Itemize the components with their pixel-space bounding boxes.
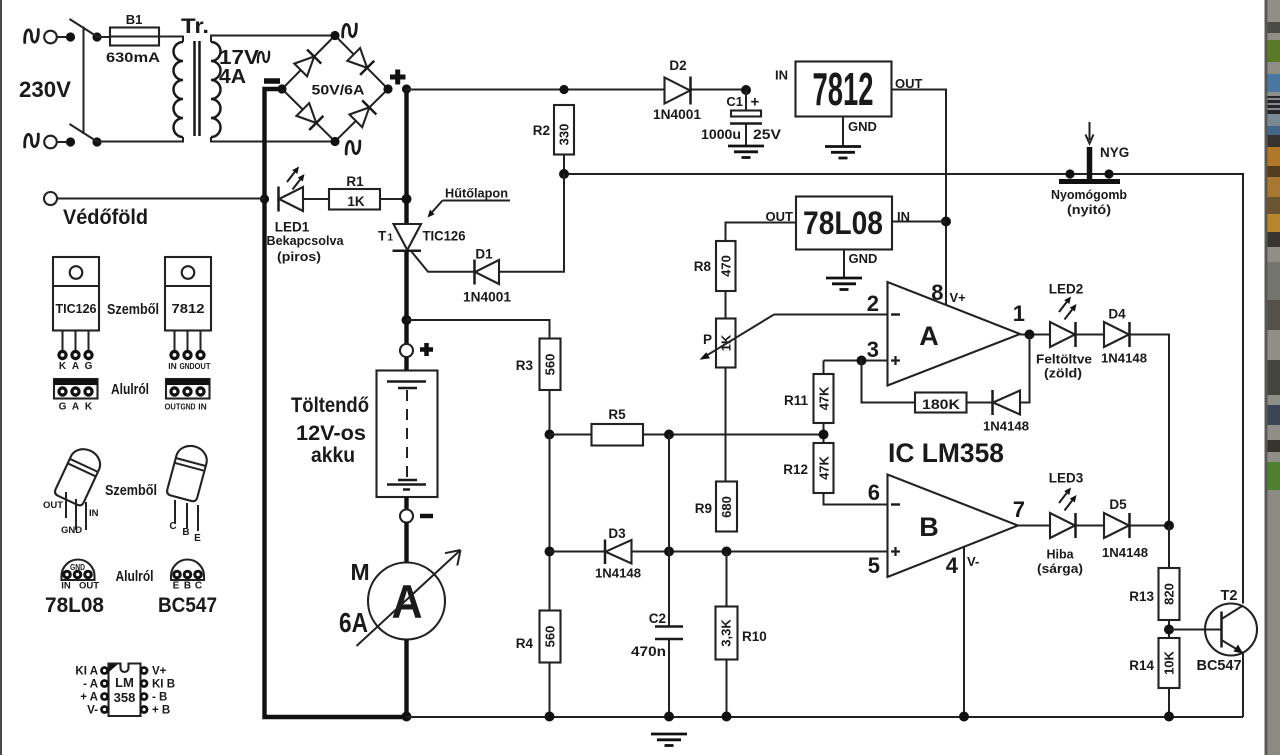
svg-text:B: B: [919, 512, 939, 542]
switch S1a blade: [70, 19, 98, 37]
svg-text:GND: GND: [849, 251, 878, 266]
svg-text:K: K: [59, 361, 67, 372]
svg-text:3: 3: [867, 337, 879, 362]
AC terminal top tilde: [25, 30, 39, 43]
resistor R14: [1159, 638, 1180, 688]
regulator U1 7812: [796, 62, 892, 117]
transformer core: [193, 41, 196, 136]
wire pin5 line: [550, 551, 888, 553]
resistor R5: [592, 424, 644, 446]
bridge diode top-right: [347, 47, 375, 75]
wire R11 top: [823, 361, 825, 375]
svg-text:R3: R3: [516, 358, 534, 373]
tilde top: [343, 24, 357, 37]
svg-text:50V/6A: 50V/6A: [312, 83, 365, 98]
earth terminal circle: [44, 192, 57, 205]
svg-text:1N4001: 1N4001: [463, 290, 511, 305]
package 78L08 front view TO-92: [54, 444, 105, 506]
wire secondary bottom: [211, 137, 335, 142]
DIP pins left: [100, 666, 109, 714]
svg-text:T: T: [378, 229, 387, 244]
svg-text:A: A: [72, 402, 79, 413]
svg-text:B1: B1: [126, 12, 143, 27]
svg-text:B: B: [184, 581, 191, 592]
svg-text:230V: 230V: [19, 77, 71, 102]
potentiometer P 1K: [716, 319, 736, 368]
diode D1: [473, 260, 476, 285]
svg-text:330: 330: [557, 124, 572, 146]
wire secondary top: [211, 36, 335, 43]
resistor R2: [554, 105, 574, 155]
svg-text:Alulról: Alulról: [111, 381, 149, 398]
svg-text:R14: R14: [1129, 658, 1154, 673]
svg-text:Hűtőlapon: Hűtőlapon: [445, 187, 508, 201]
svg-text:V+: V+: [950, 290, 967, 305]
wire 78L08 out to R8: [726, 223, 797, 242]
thyristor T1 TIC126: [394, 224, 422, 250]
svg-text:GND: GND: [61, 525, 82, 536]
svg-text:- B: - B: [152, 692, 167, 704]
diode feedback 1N4148: [991, 390, 994, 415]
wire: [159, 37, 183, 43]
wire: [1130, 525, 1170, 527]
svg-text:560: 560: [543, 354, 558, 376]
wire R4 bottom: [549, 663, 551, 718]
bridge diode bottom-left: [296, 102, 324, 130]
svg-text:IN: IN: [168, 361, 177, 371]
wire: [97, 137, 183, 142]
resistor R10: [716, 607, 738, 660]
node plus top: [402, 84, 411, 93]
wire 12V net y174: [564, 174, 1243, 604]
node R11 R12: [819, 430, 829, 440]
node bus C2: [664, 712, 674, 722]
svg-text:470n: 470n: [631, 644, 666, 659]
svg-text:78L08: 78L08: [45, 594, 104, 617]
ground 7812: [825, 147, 861, 159]
bridge diode top-left: [294, 49, 322, 77]
svg-text:D1: D1: [475, 247, 493, 262]
node C2 top: [664, 547, 674, 557]
op-amp U1B: [888, 475, 1019, 578]
svg-text:G: G: [85, 361, 93, 372]
wire: [1168, 620, 1170, 638]
resistor R8: [716, 241, 736, 291]
wire ammeter to bus: [404, 640, 408, 718]
svg-text:1: 1: [1013, 301, 1025, 326]
svg-text:R4: R4: [516, 636, 534, 651]
svg-text:680: 680: [719, 496, 734, 518]
battery plus terminal: [400, 344, 413, 357]
node bus R10: [722, 712, 732, 722]
battery box: [377, 371, 438, 498]
svg-text:1N4001: 1N4001: [653, 107, 701, 122]
label minus: [264, 78, 280, 84]
switch S1b blade: [70, 124, 98, 142]
wire 7812 out: [892, 90, 947, 306]
svg-text:IN: IN: [61, 581, 71, 592]
resistor R13: [1159, 568, 1180, 620]
op-amp U1A: [888, 282, 1021, 386]
svg-text:R10: R10: [742, 629, 767, 644]
resistor R11: [814, 374, 834, 423]
T2 base wire: [1169, 629, 1222, 631]
package BC547 front view TO-92: [166, 443, 210, 503]
node bus pin4: [959, 712, 969, 722]
svg-text:TIC126: TIC126: [423, 229, 466, 244]
wire R2 bottom: [563, 155, 565, 175]
svg-text:1N4148: 1N4148: [1102, 545, 1148, 560]
svg-text:2: 2: [867, 291, 879, 316]
svg-text:P: P: [703, 332, 712, 347]
svg-text:5: 5: [868, 553, 880, 578]
wire: [1076, 525, 1105, 527]
resistor R1: [329, 189, 380, 210]
svg-text:4: 4: [946, 553, 959, 578]
svg-text:560: 560: [543, 626, 558, 648]
wire: [57, 141, 66, 143]
svg-text:1N4148: 1N4148: [983, 419, 1029, 434]
node C1 top: [741, 85, 751, 95]
svg-text:D3: D3: [608, 526, 626, 541]
svg-text:1N4148: 1N4148: [595, 566, 641, 581]
svg-text:7: 7: [1013, 497, 1025, 522]
T2 emitter with arrow: [1222, 640, 1244, 653]
wire R12 to pin6: [824, 493, 888, 505]
LED1: [277, 187, 280, 212]
svg-text:180K: 180K: [922, 397, 960, 412]
svg-text:C1: C1: [726, 94, 743, 109]
svg-text:E: E: [173, 581, 180, 592]
svg-text:BC547: BC547: [158, 594, 217, 617]
node output A: [1025, 330, 1035, 340]
svg-text:A: A: [919, 321, 939, 351]
resistor 180K: [967, 402, 993, 404]
svg-text:Szemből: Szemből: [105, 482, 157, 499]
svg-text:Tr.: Tr.: [181, 15, 209, 38]
svg-text:25V: 25V: [753, 127, 781, 142]
wire D4 down to D5 node: [1130, 335, 1170, 527]
svg-text:IN: IN: [775, 68, 788, 83]
svg-text:KI A: KI A: [75, 666, 98, 678]
package 7812 bottom view: [165, 379, 210, 412]
wire pin4 to bus: [963, 547, 965, 718]
bridge diode bottom-right: [349, 100, 377, 128]
node minus-earth junction: [260, 194, 269, 203]
wire: [404, 357, 408, 371]
transformer Tr primary winding: [174, 42, 183, 137]
screen edge artifact right colored strip: [1268, 0, 1280, 755]
svg-text:Hiba: Hiba: [1046, 548, 1074, 562]
potentiometer wiper arrow: [702, 315, 774, 359]
svg-text:NYG: NYG: [1100, 145, 1129, 160]
svg-text:- A: - A: [83, 679, 98, 691]
battery plates: [387, 380, 426, 383]
AC terminal bottom circle: [44, 136, 57, 149]
svg-text:1000u: 1000u: [701, 127, 741, 142]
wire op-amp A pin2: [774, 314, 888, 316]
transformer Tr secondary winding: [211, 42, 221, 137]
svg-text:V+: V+: [152, 666, 167, 678]
svg-text:Alulról: Alulról: [116, 568, 154, 585]
wire 180K to pin3: [862, 361, 916, 403]
switch S1a contact dots: [66, 32, 75, 41]
node R5 right: [664, 430, 674, 440]
resistor R3: [540, 339, 561, 391]
LED1 arrows: [287, 167, 305, 190]
wire: [380, 198, 407, 200]
node 12V net at R2: [559, 169, 569, 179]
DIP pins right: [140, 666, 149, 714]
wire feedback A: [1021, 335, 1030, 403]
svg-text:IN: IN: [198, 402, 207, 412]
svg-text:12V-os: 12V-os: [296, 422, 366, 445]
svg-text:+ B: + B: [152, 705, 170, 717]
svg-text:47K: 47K: [817, 455, 832, 479]
wire T2 emitter to bus: [1242, 653, 1244, 718]
node R1 plus rail: [402, 194, 412, 204]
wire 78L08 in: [892, 221, 946, 223]
svg-text:D4: D4: [1108, 307, 1126, 322]
IC LM358 DIP-8 pinout: [109, 664, 141, 717]
wire op-amp B output: [1018, 525, 1050, 527]
svg-text:R2: R2: [533, 123, 550, 138]
pushbutton NYG bar and stem: [1059, 179, 1120, 184]
svg-text:R13: R13: [1129, 589, 1154, 604]
package BC547 bottom view: [171, 560, 204, 592]
svg-text:D5: D5: [1109, 497, 1127, 512]
wire to R13: [1168, 526, 1170, 569]
wire D1 to 12V net: [499, 174, 564, 272]
tilde bottom: [346, 141, 360, 154]
ground 78L08: [826, 278, 862, 290]
wire plus rail mid: [404, 251, 408, 345]
svg-text:1: 1: [388, 233, 394, 244]
wire op-amp A pin3: [824, 360, 888, 362]
LED2: [1050, 322, 1075, 347]
svg-text:V-: V-: [967, 554, 979, 569]
node R13 R14 base: [1164, 625, 1174, 635]
switch S1b contact dots: [66, 137, 75, 146]
svg-text:C: C: [169, 521, 176, 532]
svg-text:R5: R5: [608, 407, 626, 422]
svg-text:358: 358: [114, 690, 136, 705]
diode D2: [665, 78, 691, 104]
svg-text:V-: V-: [87, 705, 98, 717]
svg-text:LED3: LED3: [1049, 471, 1084, 486]
svg-text:470: 470: [719, 255, 734, 277]
svg-text:E: E: [194, 533, 201, 544]
svg-text:IC LM358: IC LM358: [888, 438, 1004, 468]
ground C1: [728, 146, 764, 158]
bridge rectifier 50V/6A diamond: [282, 36, 388, 142]
resistor R9: [716, 482, 737, 532]
svg-text:GND: GND: [180, 361, 195, 371]
capacitor C1: [745, 90, 747, 110]
svg-text:1N4148: 1N4148: [1101, 351, 1147, 366]
svg-text:Feltöltve: Feltöltve: [1036, 353, 1092, 367]
LED3: [1050, 513, 1075, 538]
capacitor C2: [668, 435, 670, 627]
svg-text:D2: D2: [669, 58, 686, 73]
node 78L08 in: [941, 217, 951, 227]
node bus ammeter: [402, 712, 412, 722]
svg-text:Nyomógomb: Nyomógomb: [1051, 187, 1127, 202]
ammeter M 6A: [368, 563, 445, 640]
svg-text:Töltendő: Töltendő: [291, 394, 369, 417]
regulator U2 78L08: [796, 197, 892, 250]
T2 collector: [1222, 606, 1244, 620]
wire earth line: [57, 198, 265, 200]
battery minus terminal: [400, 510, 413, 523]
switch gang link: [83, 27, 85, 135]
wire minus thick rail: [265, 89, 407, 717]
svg-text:B: B: [182, 527, 189, 538]
wire 78L08 gnd: [843, 250, 845, 278]
svg-text:Szemből: Szemből: [107, 301, 159, 318]
resistor R4: [540, 611, 561, 663]
pushbutton NYG contacts: [1065, 169, 1074, 178]
svg-text:OUT: OUT: [165, 402, 182, 412]
wire op-amp A output: [1020, 334, 1050, 336]
svg-text:R12: R12: [783, 462, 808, 477]
svg-text:R11: R11: [784, 393, 809, 408]
svg-text:3,3K: 3,3K: [719, 619, 734, 647]
node battery top branch: [402, 315, 412, 325]
node pin3: [857, 356, 867, 366]
wire R4 branch: [549, 435, 551, 611]
svg-text:820: 820: [1162, 583, 1177, 605]
svg-text:Védőföld: Védőföld: [63, 205, 148, 229]
svg-text:A: A: [392, 575, 423, 628]
wire ground bus: [407, 716, 1244, 718]
svg-text:7812: 7812: [172, 302, 205, 316]
bridge node right: [383, 84, 392, 93]
wire top rail: [407, 89, 747, 91]
svg-text:M: M: [351, 559, 370, 585]
node R9 bottom: [722, 547, 732, 557]
wire: [97, 36, 110, 38]
svg-text:G: G: [59, 402, 67, 413]
thyristor gate wire: [411, 251, 474, 272]
wire R10 bottom: [726, 660, 728, 718]
fuse B1: [110, 28, 159, 46]
svg-text:(zöld): (zöld): [1044, 367, 1082, 381]
svg-text:LED2: LED2: [1049, 282, 1084, 297]
svg-text:GND: GND: [848, 119, 877, 134]
wire R3 bottom: [549, 390, 551, 435]
svg-text:6: 6: [868, 480, 880, 505]
wire: [404, 497, 408, 510]
wire branch to R3: [407, 320, 550, 339]
svg-text:BC547: BC547: [1197, 658, 1242, 674]
svg-text:OUT: OUT: [43, 500, 63, 511]
wire R14 to bus: [1168, 688, 1170, 717]
svg-text:(piros): (piros): [277, 249, 321, 264]
package TIC126 bottom view: [54, 379, 98, 413]
screen edge artifact right dark line: [1265, 0, 1268, 755]
svg-text:78L08: 78L08: [803, 205, 883, 241]
wire: [404, 523, 408, 564]
node bus R14: [1164, 712, 1174, 722]
node bus R4: [545, 712, 555, 722]
ammeter arrow: [357, 550, 461, 646]
svg-text:1K: 1K: [347, 194, 365, 209]
pushbutton NYG press arrow: [1089, 122, 1091, 140]
bridge node bottom: [330, 137, 339, 146]
diode D5: [1104, 513, 1129, 538]
bridge node left: [277, 84, 286, 93]
svg-text:630mA: 630mA: [106, 50, 160, 65]
wire: [1076, 334, 1105, 336]
package TIC126 front view: [53, 257, 99, 372]
svg-text:R9: R9: [695, 501, 712, 516]
svg-text:K: K: [85, 402, 93, 413]
svg-text:Bekapcsolva: Bekapcsolva: [267, 233, 345, 248]
AC terminal top circle: [44, 31, 57, 44]
svg-text:T2: T2: [1221, 588, 1238, 604]
diode D3: [604, 540, 607, 565]
ground bus earth symbol: [651, 734, 687, 746]
svg-text:akku: akku: [311, 444, 355, 467]
node R2 top: [559, 85, 568, 94]
AC terminal bottom tilde: [25, 134, 39, 147]
wire P bottom to R9: [725, 368, 727, 482]
svg-text:4A: 4A: [219, 66, 246, 88]
svg-text:OUT: OUT: [195, 361, 212, 371]
svg-text:10K: 10K: [1162, 650, 1177, 674]
svg-text:OUT: OUT: [79, 581, 99, 592]
wire: [303, 198, 329, 200]
node R3 R5: [545, 430, 555, 440]
wire R8 to P: [725, 291, 727, 319]
resistor R12: [814, 443, 834, 493]
package 7812 front view: [165, 257, 211, 371]
transistor T2 BC547: [1205, 604, 1257, 656]
svg-text:A: A: [72, 361, 79, 372]
svg-text:+: +: [751, 94, 760, 111]
diode D4: [1104, 322, 1129, 347]
wire 7812 gnd: [842, 117, 844, 147]
svg-text:R8: R8: [694, 259, 712, 274]
svg-text:6A: 6A: [339, 607, 368, 638]
svg-text:(sárga): (sárga): [1037, 562, 1083, 576]
wire plus thick rail top: [404, 89, 408, 224]
svg-text:(nyitó): (nyitó): [1067, 202, 1111, 217]
svg-text:LM: LM: [115, 675, 134, 690]
node D3 left: [545, 547, 555, 557]
svg-text:+ A: + A: [80, 692, 98, 704]
svg-text:C: C: [195, 581, 202, 592]
svg-text:KI B: KI B: [152, 679, 175, 691]
screen edge artifact left: [0, 0, 2, 755]
node D5 out: [1164, 521, 1174, 531]
package 78L08 bottom view: [61, 560, 99, 592]
wire R9-R10: [726, 552, 728, 607]
svg-text:IN: IN: [89, 508, 99, 519]
svg-text:8: 8: [931, 280, 943, 305]
svg-text:TIC126: TIC126: [56, 302, 97, 316]
svg-text:7812: 7812: [813, 63, 874, 115]
svg-text:R1: R1: [346, 174, 364, 189]
label plus: [390, 75, 406, 80]
wire mid line: [550, 434, 824, 436]
svg-text:C2: C2: [649, 611, 666, 626]
svg-text:47K: 47K: [817, 386, 832, 410]
bridge node top: [330, 31, 339, 40]
svg-text:GND: GND: [181, 402, 196, 412]
wire: [57, 36, 66, 38]
